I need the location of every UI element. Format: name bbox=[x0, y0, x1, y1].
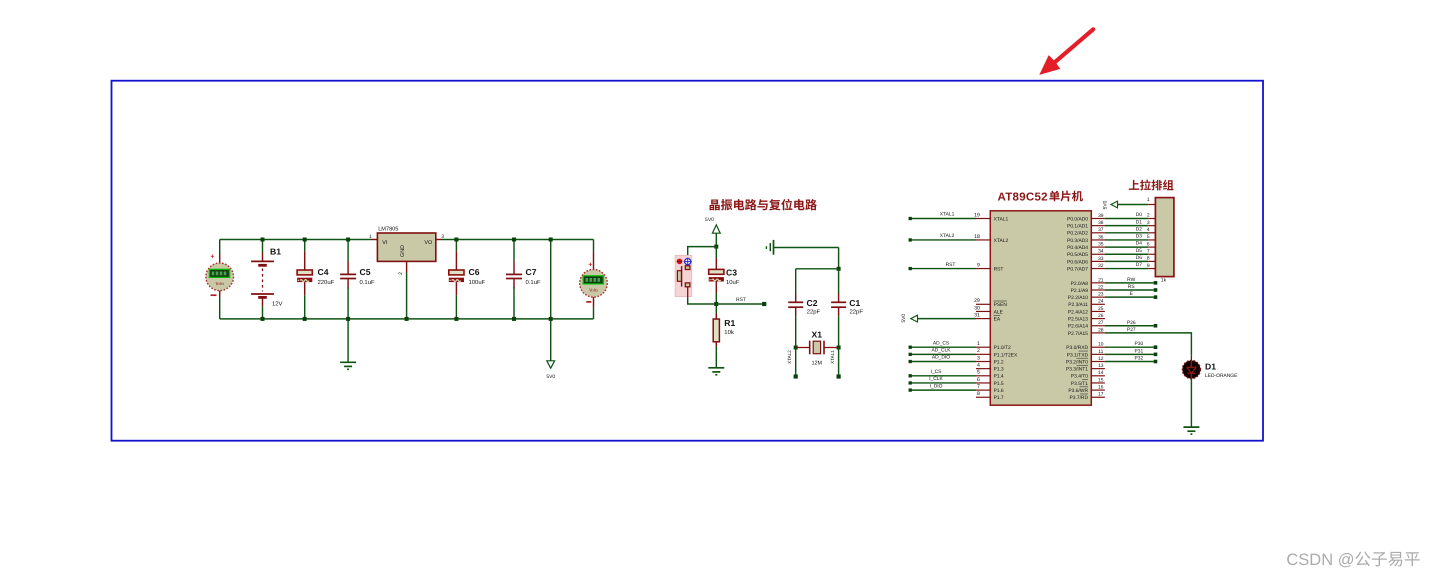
svg-text:17: 17 bbox=[1098, 392, 1104, 398]
svg-text:12: 12 bbox=[1098, 356, 1104, 362]
svg-text:CSDN @: CSDN @ bbox=[1286, 551, 1354, 569]
svg-text:C3: C3 bbox=[726, 267, 737, 277]
svg-text:27: 27 bbox=[1098, 320, 1104, 326]
svg-text:2: 2 bbox=[398, 272, 404, 275]
svg-text:EA: EA bbox=[994, 317, 1001, 323]
svg-text:P1.0/T2: P1.0/T2 bbox=[994, 345, 1011, 351]
svg-text:P1.4: P1.4 bbox=[994, 374, 1004, 380]
svg-text:P0.2/AD2: P0.2/AD2 bbox=[1067, 231, 1088, 237]
svg-text:5: 5 bbox=[977, 370, 980, 376]
svg-text:33: 33 bbox=[1098, 256, 1104, 262]
svg-text:P3.0/RXD: P3.0/RXD bbox=[1066, 345, 1088, 351]
svg-text:RS: RS bbox=[1128, 284, 1136, 290]
svg-text:0.1uF: 0.1uF bbox=[526, 279, 541, 286]
svg-text:1: 1 bbox=[1147, 197, 1150, 203]
svg-text:I_DIO: I_DIO bbox=[930, 383, 943, 389]
svg-text:30: 30 bbox=[974, 305, 980, 311]
svg-text:24: 24 bbox=[1098, 299, 1104, 305]
svg-text:XTAL2: XTAL2 bbox=[994, 238, 1009, 244]
svg-text:8: 8 bbox=[977, 391, 980, 397]
svg-text:VI: VI bbox=[382, 240, 387, 246]
svg-text:6: 6 bbox=[1147, 241, 1150, 247]
svg-text:35: 35 bbox=[1098, 242, 1104, 248]
svg-text:D2: D2 bbox=[1136, 226, 1143, 232]
svg-text:34: 34 bbox=[1098, 249, 1104, 255]
svg-text:D0: D0 bbox=[1136, 212, 1143, 218]
svg-text:1k: 1k bbox=[1161, 278, 1167, 284]
svg-text:RST: RST bbox=[946, 262, 956, 268]
svg-text:31: 31 bbox=[974, 312, 980, 318]
svg-text:AD_CLK: AD_CLK bbox=[931, 348, 951, 354]
svg-text:6: 6 bbox=[977, 377, 980, 383]
svg-text:P2.7/A15: P2.7/A15 bbox=[1068, 331, 1088, 337]
svg-text:12V: 12V bbox=[272, 300, 283, 307]
svg-text:19: 19 bbox=[974, 212, 980, 218]
svg-text:32: 32 bbox=[1098, 263, 1104, 269]
svg-text:3: 3 bbox=[977, 355, 980, 361]
svg-text:P1.3: P1.3 bbox=[994, 367, 1004, 373]
svg-text:38: 38 bbox=[1098, 220, 1104, 226]
svg-text:X1: X1 bbox=[812, 329, 823, 339]
svg-text:R1: R1 bbox=[724, 318, 735, 328]
svg-text:C1: C1 bbox=[849, 298, 860, 308]
svg-text:3: 3 bbox=[1147, 220, 1150, 226]
svg-text:10uF: 10uF bbox=[726, 279, 740, 286]
svg-text:10: 10 bbox=[1098, 342, 1104, 348]
svg-text:P31: P31 bbox=[1135, 348, 1144, 354]
svg-text:P3.4/T0: P3.4/T0 bbox=[1071, 374, 1088, 380]
svg-text:2: 2 bbox=[977, 348, 980, 354]
svg-text:P0.1/AD1: P0.1/AD1 bbox=[1067, 224, 1088, 230]
svg-text:P2.3/A11: P2.3/A11 bbox=[1068, 302, 1088, 308]
svg-text:P32: P32 bbox=[1135, 356, 1144, 362]
svg-text:P3.7/RD: P3.7/RD bbox=[1070, 395, 1089, 401]
svg-text:P1.5: P1.5 bbox=[994, 381, 1004, 387]
svg-text:D7: D7 bbox=[1136, 262, 1143, 268]
svg-text:GND: GND bbox=[400, 245, 406, 257]
svg-text:11: 11 bbox=[1098, 349, 1103, 355]
svg-text:22pF: 22pF bbox=[807, 309, 821, 316]
svg-text:P0.5/AD5: P0.5/AD5 bbox=[1067, 252, 1088, 258]
svg-text:P3.5/T1: P3.5/T1 bbox=[1071, 381, 1088, 387]
svg-text:C7: C7 bbox=[526, 267, 537, 277]
svg-text:1: 1 bbox=[369, 234, 372, 240]
svg-text:D1: D1 bbox=[1136, 219, 1143, 225]
svg-text:P27: P27 bbox=[1127, 327, 1136, 333]
svg-text:P1.2: P1.2 bbox=[994, 359, 1004, 365]
svg-text:Volts: Volts bbox=[589, 288, 598, 293]
svg-text:P2.5/A13: P2.5/A13 bbox=[1068, 317, 1088, 323]
svg-text:P0.3/AD3: P0.3/AD3 bbox=[1067, 238, 1088, 244]
svg-text:5V0: 5V0 bbox=[1103, 200, 1109, 209]
svg-text:ALE: ALE bbox=[994, 309, 1004, 315]
svg-text:RST: RST bbox=[736, 297, 746, 303]
svg-text:7: 7 bbox=[1147, 248, 1150, 254]
svg-text:36: 36 bbox=[1098, 234, 1104, 240]
svg-text:Volts: Volts bbox=[215, 281, 224, 286]
svg-text:+: + bbox=[211, 254, 215, 261]
svg-text:C5: C5 bbox=[360, 267, 371, 277]
svg-text:XTAL2: XTAL2 bbox=[940, 233, 955, 239]
svg-text:P26: P26 bbox=[1127, 320, 1136, 326]
svg-text:D3: D3 bbox=[1136, 234, 1143, 240]
svg-text:XTAL2: XTAL2 bbox=[787, 350, 792, 364]
svg-text:P2.6/A14: P2.6/A14 bbox=[1068, 324, 1088, 330]
svg-text:29: 29 bbox=[974, 298, 980, 304]
svg-text:4: 4 bbox=[977, 362, 980, 368]
svg-text:0.1uF: 0.1uF bbox=[360, 279, 375, 286]
svg-text:P3.3/INT1: P3.3/INT1 bbox=[1066, 367, 1088, 373]
svg-text:C6: C6 bbox=[469, 267, 480, 277]
svg-text:C4: C4 bbox=[318, 267, 329, 277]
svg-text:2: 2 bbox=[1147, 213, 1150, 219]
svg-text:P0.4/AD4: P0.4/AD4 bbox=[1067, 245, 1088, 251]
svg-text:100uF: 100uF bbox=[469, 279, 486, 286]
svg-text:AD_CS: AD_CS bbox=[933, 340, 950, 346]
svg-text:P2.1/A9: P2.1/A9 bbox=[1071, 288, 1089, 294]
svg-text:XTAL1: XTAL1 bbox=[994, 216, 1009, 222]
svg-text:22pF: 22pF bbox=[850, 309, 864, 316]
svg-text:3: 3 bbox=[441, 234, 444, 240]
svg-text:25: 25 bbox=[1098, 306, 1104, 312]
svg-text:P2.4/A12: P2.4/A12 bbox=[1068, 309, 1088, 315]
svg-text:P0.7/AD7: P0.7/AD7 bbox=[1067, 266, 1088, 272]
svg-text:I_CLK: I_CLK bbox=[929, 376, 943, 382]
svg-text:7: 7 bbox=[977, 384, 980, 390]
svg-text:37: 37 bbox=[1098, 227, 1104, 233]
svg-text:RW: RW bbox=[1127, 277, 1135, 283]
svg-text:5: 5 bbox=[1147, 234, 1150, 240]
svg-text:16: 16 bbox=[1098, 385, 1104, 391]
svg-text:LM7805: LM7805 bbox=[378, 227, 398, 233]
svg-text:P3.2/INT0: P3.2/INT0 bbox=[1066, 359, 1088, 365]
svg-text:XTAL1: XTAL1 bbox=[940, 212, 955, 218]
svg-text:+: + bbox=[588, 261, 592, 268]
svg-text:AT89C52: AT89C52 bbox=[998, 191, 1048, 203]
svg-text:4: 4 bbox=[1147, 227, 1150, 233]
svg-text:22: 22 bbox=[1098, 284, 1104, 290]
svg-text:C2: C2 bbox=[807, 298, 818, 308]
svg-text:8: 8 bbox=[1147, 256, 1150, 262]
svg-text:220uF: 220uF bbox=[318, 279, 335, 286]
svg-text:P1.6: P1.6 bbox=[994, 388, 1004, 394]
svg-text:P1.7: P1.7 bbox=[994, 395, 1004, 401]
svg-text:14: 14 bbox=[1098, 370, 1104, 376]
svg-text:D6: D6 bbox=[1136, 255, 1143, 261]
svg-text:18: 18 bbox=[974, 234, 980, 240]
svg-text:P0.6/AD6: P0.6/AD6 bbox=[1067, 259, 1088, 265]
svg-text:5V0: 5V0 bbox=[546, 374, 555, 380]
svg-text:P2.2/A10: P2.2/A10 bbox=[1068, 295, 1088, 301]
svg-text:1: 1 bbox=[977, 341, 980, 347]
svg-text:26: 26 bbox=[1098, 313, 1104, 319]
svg-text:21: 21 bbox=[1098, 277, 1104, 283]
svg-text:XTAL1: XTAL1 bbox=[830, 350, 835, 364]
svg-text:5V0: 5V0 bbox=[705, 217, 714, 223]
svg-text:D5: D5 bbox=[1136, 248, 1143, 254]
svg-text:9: 9 bbox=[1147, 263, 1150, 269]
svg-text:9: 9 bbox=[977, 262, 980, 268]
svg-text:P2.0/A8: P2.0/A8 bbox=[1071, 281, 1089, 287]
svg-text:39: 39 bbox=[1098, 213, 1104, 219]
svg-text:13: 13 bbox=[1098, 363, 1104, 369]
svg-text:P3.6/WR: P3.6/WR bbox=[1068, 388, 1088, 394]
svg-text:P30: P30 bbox=[1135, 341, 1144, 347]
svg-text:28: 28 bbox=[1098, 327, 1104, 333]
svg-text:PSEN: PSEN bbox=[994, 302, 1008, 308]
svg-text:P0.0/AD0: P0.0/AD0 bbox=[1067, 216, 1088, 222]
svg-text:D4: D4 bbox=[1136, 241, 1143, 247]
svg-text:D1: D1 bbox=[1205, 361, 1216, 371]
svg-text:RST: RST bbox=[994, 266, 1004, 272]
svg-text:LED-ORANGE: LED-ORANGE bbox=[1205, 373, 1238, 379]
svg-text:15: 15 bbox=[1098, 377, 1104, 383]
svg-text:P1.1/T2EX: P1.1/T2EX bbox=[994, 352, 1018, 358]
svg-text:5V0: 5V0 bbox=[901, 314, 907, 323]
svg-text:I_CS: I_CS bbox=[931, 369, 943, 375]
svg-text:12M: 12M bbox=[811, 360, 822, 366]
svg-text:P3.1/TXD: P3.1/TXD bbox=[1067, 352, 1089, 358]
svg-text:10k: 10k bbox=[724, 329, 734, 336]
svg-text:B1: B1 bbox=[270, 246, 281, 256]
svg-text:AD_DIO: AD_DIO bbox=[932, 355, 950, 361]
svg-text:VO: VO bbox=[424, 240, 432, 246]
svg-text:23: 23 bbox=[1098, 292, 1104, 298]
